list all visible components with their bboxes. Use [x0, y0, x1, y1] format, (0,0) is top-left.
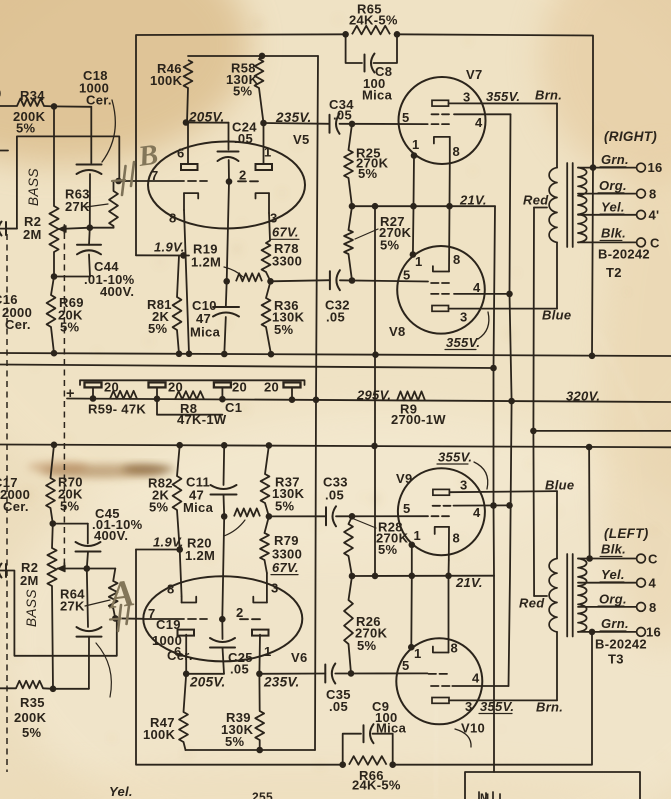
leader R20 — [224, 520, 245, 536]
node V7 pin1 — [411, 152, 418, 159]
wire R2a column top — [53, 106, 55, 206]
svg-text:3: 3 — [460, 310, 468, 325]
capacitor C17 edge — [0, 564, 2, 578]
wire V8 pin4 lead — [454, 293, 510, 295]
terminal T2 16 — [637, 163, 646, 172]
svg-text:4: 4 — [472, 671, 480, 686]
wire R39 bottom lead — [259, 740, 261, 750]
node V6 pin2 — [219, 616, 226, 623]
wire A to V6 — [115, 617, 143, 619]
node rail C / screen column — [508, 398, 515, 405]
leader R64 — [85, 600, 110, 606]
node 21V lower V10 col — [445, 573, 452, 580]
wire T3 black to rail D — [588, 447, 591, 559]
svg-text:2700-1W: 2700-1W — [391, 412, 446, 427]
svg-text:Cer.: Cer. — [86, 93, 112, 108]
wire V7 pin4 lead — [454, 113, 511, 115]
resistor R35 200K — [16, 681, 43, 689]
transformer T3 primary — [549, 559, 557, 632]
node rail A / R69 — [51, 350, 58, 357]
svg-text:24K-5%: 24K-5% — [349, 13, 398, 28]
svg-text:B-20242: B-20242 — [595, 637, 647, 652]
wire R78 top bend — [266, 241, 270, 244]
tube V8 grid pin5 dashes — [431, 282, 438, 284]
node B — [115, 178, 122, 185]
terminal T3 8 — [637, 603, 646, 612]
wire R58 top bend — [259, 56, 262, 59]
wire R64 bottom lead — [113, 608, 115, 618]
node wiper/C44 — [87, 224, 94, 231]
wire V9 pin1 lead — [411, 545, 413, 576]
svg-text:Blk.: Blk. — [601, 226, 626, 241]
svg-text:V5: V5 — [293, 132, 310, 147]
svg-text:67V.: 67V. — [272, 225, 299, 240]
node R65 right — [394, 31, 401, 38]
node rail D / R82 — [176, 442, 183, 449]
wire R25 bottom lead — [349, 178, 353, 206]
wire top box — [136, 34, 346, 255]
svg-text:(LEFT): (LEFT) — [604, 526, 649, 541]
wire R35 to node — [43, 687, 53, 690]
node C35/R26 — [348, 670, 355, 677]
svg-text:21V.: 21V. — [459, 193, 487, 208]
node R66 left — [339, 761, 346, 768]
wire R28 top lead — [349, 516, 353, 524]
svg-text:C1: C1 — [225, 400, 242, 415]
wire V10 plate lead — [449, 699, 557, 701]
leader V10 355V — [455, 729, 471, 747]
resistor R59 47K — [110, 391, 137, 399]
resistor R82 2K — [173, 476, 182, 510]
svg-text:8: 8 — [649, 187, 657, 202]
wire T3 tap 16 — [578, 631, 637, 633]
wire V8 plate lead — [449, 308, 558, 310]
tube V7 grid pin5 dashes — [432, 123, 439, 125]
svg-text:4: 4 — [649, 576, 657, 591]
svg-text:.05: .05 — [230, 662, 249, 677]
wire R35 row — [53, 688, 89, 690]
wire 235V to C34 — [264, 122, 330, 125]
node 21V V7 pin1 col — [410, 203, 417, 210]
resistor R66 24K-5% — [349, 756, 387, 765]
wire T2 tap C — [578, 241, 637, 243]
capacitor C10 47 Mica — [213, 306, 239, 308]
wire C25 bottom lead — [223, 648, 225, 674]
wire C10 top lead — [225, 281, 228, 307]
svg-text:Blue: Blue — [542, 308, 571, 323]
transformer T3 secondary — [578, 559, 587, 632]
resistor R63 27K — [109, 191, 118, 226]
node rail D / T3 black — [586, 444, 593, 451]
wire R2b column top — [51, 524, 54, 548]
svg-text:355V.: 355V. — [438, 450, 472, 465]
svg-text:320V.: 320V. — [566, 388, 600, 403]
svg-text:3: 3 — [465, 699, 473, 714]
node V8 pin1 — [410, 251, 417, 258]
svg-text:2: 2 — [239, 168, 247, 183]
tube V9 grid pin5 dashes — [432, 515, 439, 517]
svg-text:Grn.: Grn. — [601, 152, 629, 167]
resistor R28 270K — [344, 524, 353, 556]
node rail D / R37 — [266, 442, 273, 449]
svg-text:20: 20 — [168, 380, 183, 395]
tube V6 cathode pin3 — [253, 597, 267, 603]
svg-text:Mica: Mica — [362, 88, 393, 103]
tube V9 cathode pin8 — [435, 527, 449, 534]
node rail D / C11 — [221, 442, 228, 449]
potentiometer R2 lower 2M — [47, 548, 56, 586]
wire R69 top lead — [51, 277, 54, 296]
leader V9 355V — [474, 462, 488, 489]
wire V7 pin1 lead — [413, 156, 416, 207]
wire C35 to V10 — [335, 672, 427, 674]
wire B+ primaries column x=533 — [532, 208, 535, 597]
node B+ branch — [530, 428, 537, 435]
node 21V lower V9 col — [409, 573, 416, 580]
svg-text:5%: 5% — [380, 238, 400, 253]
svg-text:B-20242: B-20242 — [598, 247, 650, 262]
tube V8 envelope — [397, 246, 485, 334]
node V9 pin1 — [409, 542, 416, 549]
resistor R19 1.2M — [236, 273, 262, 281]
wire V10 pin1 lead — [410, 576, 413, 647]
svg-text:1: 1 — [264, 145, 272, 160]
wire C11 top lead — [223, 445, 226, 485]
dashed gang line left — [6, 234, 8, 772]
wire R82 top lead — [177, 445, 180, 476]
capacitor C1 section c 20uF — [214, 382, 231, 387]
wire R79 top lead — [265, 516, 269, 533]
wire C19 bottom lead — [88, 637, 90, 689]
tube V10 screen pin4 dashes — [431, 685, 439, 687]
wire R26 bottom lead — [349, 644, 352, 673]
capacitor C8 100 Mica — [364, 55, 366, 72]
leader C18 — [102, 100, 115, 162]
node R39 bottom — [256, 747, 263, 754]
wire lower feedback loop — [0, 571, 117, 656]
svg-text:100K: 100K — [143, 727, 176, 742]
node rail A / R36 — [268, 351, 275, 358]
svg-text:16: 16 — [648, 160, 663, 175]
wire R47 top lead — [184, 674, 187, 712]
resistor R70 20K — [46, 478, 55, 508]
wire R37 top lead — [265, 445, 269, 474]
wire V5 pin6 lead — [187, 123, 189, 165]
tube V10 envelope — [396, 638, 482, 724]
wire rail D — [0, 445, 671, 448]
node C34/R25 — [349, 121, 356, 128]
svg-text:4: 4 — [473, 505, 481, 520]
node R20 left — [221, 513, 228, 520]
svg-text:V9: V9 — [396, 471, 413, 486]
svg-text:4': 4' — [649, 208, 660, 223]
wire C32 to V8 — [340, 280, 428, 281]
wire V6 pin6 lead — [185, 635, 187, 674]
svg-text:+: + — [66, 386, 75, 402]
tube V8 plate pin3 — [432, 306, 449, 312]
wire 205V lower — [186, 673, 224, 675]
wire supply column x=316 — [315, 56, 318, 750]
wire R70 top lead — [51, 445, 55, 478]
node 235V — [260, 120, 267, 127]
wire V5 pin7 grid — [119, 180, 185, 182]
resistor R8 47K-1W — [175, 391, 204, 399]
wire T3 tap C — [578, 558, 637, 560]
leader R28 — [354, 519, 376, 528]
svg-text:Cer.: Cer. — [3, 499, 29, 514]
svg-text:8: 8 — [169, 211, 177, 226]
wire C34 to V7 — [340, 123, 428, 125]
tube V10 plate pin3 — [432, 698, 449, 704]
node R65 left — [342, 31, 349, 38]
svg-text:5%: 5% — [358, 166, 378, 181]
resistor R47 100K — [179, 712, 188, 742]
node T3 black — [586, 555, 593, 562]
terminal T3 C — [637, 554, 646, 563]
node rail B end — [490, 365, 497, 372]
wire 1.9V lower — [136, 549, 180, 551]
wire V6 pin1 lead — [258, 635, 261, 674]
tube V7 plate pin3 — [432, 100, 449, 106]
svg-text:27K: 27K — [60, 599, 85, 614]
wire R66 to T3 — [393, 632, 592, 765]
wire V10 pin4 lead — [452, 685, 508, 687]
capacitor C11 47 Mica — [211, 494, 237, 496]
wire R79 bottom lead — [265, 560, 267, 573]
tube V7 cathode pin8 — [434, 137, 450, 144]
svg-text:Brn.: Brn. — [536, 700, 563, 715]
wire V5 pin3 lead — [269, 213, 270, 241]
wire screen column x=510 — [509, 114, 512, 686]
wire C1 bracket — [80, 380, 305, 385]
tube V6 plate pin6 — [178, 630, 195, 636]
wire R81 top lead — [177, 256, 179, 298]
svg-text:3300: 3300 — [272, 254, 302, 269]
tube V6 grid pin2 dashes — [240, 618, 248, 620]
tube V8 screen pin4 dashes — [431, 293, 438, 295]
terminal T3 4 — [637, 578, 646, 587]
svg-text:Yel.: Yel. — [601, 200, 625, 215]
wire T3 primary top lead — [556, 491, 558, 558]
node 205V — [183, 119, 190, 126]
node R20 right — [266, 513, 273, 520]
wire V9 pin4 lead — [454, 504, 510, 506]
resistor R81 2K — [173, 297, 182, 330]
svg-text:5%: 5% — [148, 321, 168, 336]
node T2 green — [590, 164, 597, 171]
leader R19 — [224, 267, 243, 277]
svg-text:(RIGHT): (RIGHT) — [604, 129, 657, 144]
svg-text:6: 6 — [174, 644, 182, 659]
svg-text:20: 20 — [104, 380, 119, 395]
wire R19 row to C32 — [271, 280, 330, 281]
capacitor C24 .05 — [218, 151, 239, 153]
pencil cap mark — [122, 166, 126, 195]
wire V9 cathode lead — [448, 560, 450, 576]
svg-text:100K: 100K — [150, 73, 183, 88]
wire T3 tap 4 — [578, 582, 637, 584]
svg-text:8: 8 — [649, 600, 657, 615]
capacitor C1 section b 20uF — [149, 382, 166, 387]
svg-text:1.2M: 1.2M — [191, 255, 221, 270]
svg-text:Yel.: Yel. — [601, 567, 625, 582]
wire C44 top lead — [88, 228, 91, 245]
svg-text:5%: 5% — [357, 638, 377, 653]
node rail C / C1a — [90, 395, 97, 402]
wire C33 to V9 — [336, 515, 428, 517]
tube V5 grid pin2 dashes — [238, 180, 246, 182]
wire T2 primary top lead — [556, 104, 558, 168]
wire 1.9V — [136, 254, 189, 256]
wire C18 top lead — [90, 107, 92, 163]
wire 235V lower to C35 — [259, 673, 325, 675]
node rail A / C10 — [221, 351, 228, 358]
wire bottom inner — [186, 749, 316, 751]
wire T2 primary bottom lead — [556, 242, 558, 308]
svg-text:200K: 200K — [14, 710, 47, 725]
node R34 — [51, 103, 58, 110]
svg-text:8: 8 — [453, 252, 461, 267]
svg-text:235V.: 235V. — [263, 675, 300, 690]
svg-text:Blk.: Blk. — [601, 542, 626, 557]
leader R63 — [86, 204, 108, 207]
wire C9 loop — [343, 734, 361, 765]
wire V6 pin8 lead — [180, 550, 182, 597]
svg-text:2: 2 — [236, 605, 244, 620]
wire V5 pin1 lead — [263, 123, 265, 164]
svg-text:1: 1 — [414, 646, 422, 661]
node rail A / R81 — [176, 351, 183, 358]
wire R2b column bottom — [52, 586, 53, 689]
wire R63 bottom lead — [113, 226, 115, 228]
wire C45 row — [53, 523, 88, 525]
svg-text:T2: T2 — [606, 265, 622, 280]
svg-text:R35: R35 — [20, 695, 45, 710]
node A — [112, 615, 119, 622]
svg-text:8: 8 — [167, 582, 175, 597]
resistor R58 130K — [255, 59, 264, 88]
wire 205V — [186, 122, 229, 124]
wire R39 top lead — [258, 674, 260, 711]
node 21V V7 cathode col — [446, 203, 453, 210]
tube V7 screen pin4 dashes — [432, 113, 439, 115]
node rail D / left column — [51, 442, 58, 449]
wire R69 bottom lead — [51, 327, 54, 353]
svg-text:3: 3 — [271, 581, 279, 596]
svg-text:R34: R34 — [20, 88, 45, 103]
svg-text:0: 0 — [0, 86, 2, 101]
svg-text:3: 3 — [463, 90, 471, 105]
node 205V lower — [183, 671, 190, 678]
wire R28 bottom lead — [349, 556, 353, 576]
node rail C / supply column — [313, 397, 320, 404]
wire T2 tap 4 — [578, 214, 637, 216]
tube V10 grid pin5 dashes — [429, 673, 437, 675]
wire T3 tap 8 — [578, 606, 637, 608]
tube V6 plate pin1 — [252, 630, 269, 636]
resistor R27 270K — [344, 230, 353, 254]
leader R27 — [355, 229, 378, 239]
svg-text:355V.: 355V. — [480, 699, 514, 714]
tube V9 plate pin3 — [433, 489, 450, 495]
wire rail B — [0, 365, 494, 369]
node rail C / C1d — [289, 396, 296, 403]
svg-text:1: 1 — [415, 254, 423, 269]
svg-text:Cer.: Cer. — [5, 317, 31, 332]
svg-text:205V.: 205V. — [189, 675, 226, 690]
wire 21V column x=494 — [494, 206, 496, 772]
wire T2 tap 16 — [578, 167, 637, 169]
wire C19 top lead — [87, 569, 88, 628]
capacitor C33 .05 — [325, 507, 327, 525]
svg-text:1: 1 — [264, 644, 272, 659]
svg-text:Brn.: Brn. — [535, 88, 562, 103]
svg-text:5%: 5% — [274, 322, 294, 337]
terminal T2 8 — [637, 189, 646, 198]
wire 21V row — [352, 205, 495, 207]
svg-text:5: 5 — [403, 501, 411, 516]
node V9 pin4 junction b — [506, 502, 513, 509]
svg-text:V8: V8 — [389, 324, 406, 339]
resistor R79 3300 — [260, 533, 269, 560]
svg-text:1: 1 — [414, 528, 422, 543]
node V8 pin4 junction — [506, 291, 513, 298]
tube V5 plate pin1 — [256, 164, 273, 170]
resistor R34 200K — [17, 99, 44, 107]
wire R34 to node — [44, 105, 54, 107]
svg-text:5%: 5% — [378, 542, 398, 557]
wire R70 bottom lead — [51, 508, 53, 524]
svg-text:5%: 5% — [225, 734, 245, 749]
resistor R20 1.2M — [234, 508, 260, 516]
transformer T2 core — [566, 163, 568, 247]
svg-text:Mica: Mica — [183, 500, 214, 515]
wire inner top — [188, 55, 318, 57]
node R70/C45 — [50, 520, 57, 527]
svg-text:5%: 5% — [16, 121, 36, 136]
svg-text:3: 3 — [270, 211, 278, 226]
node V5 pin2 — [226, 178, 233, 185]
tube V6 cathode pin8 — [181, 597, 183, 603]
svg-text:BASS: BASS — [24, 589, 39, 627]
node rail D / center column — [371, 443, 378, 450]
node C32/R27 — [349, 277, 356, 284]
svg-text:5%: 5% — [275, 499, 295, 514]
svg-text:5: 5 — [402, 110, 410, 125]
svg-text:355V.: 355V. — [446, 335, 480, 350]
svg-text:Org.: Org. — [599, 592, 627, 607]
node C33/R28 — [349, 513, 356, 520]
wire C25 top lead — [221, 619, 223, 639]
svg-text:Yel.: Yel. — [109, 784, 133, 799]
wire node to C18 — [54, 105, 91, 107]
wire R78 lead — [266, 272, 271, 281]
capacitor C25 .05 — [210, 647, 235, 649]
resistor R39 130K — [255, 711, 264, 740]
leader C19 — [96, 643, 111, 697]
svg-text:1.2M: 1.2M — [185, 548, 215, 563]
svg-text:Mica: Mica — [376, 721, 407, 736]
wire R2a column bottom — [53, 252, 55, 277]
wire R36 bottom lead — [266, 327, 271, 354]
wire wiper row upper — [59, 228, 90, 229]
wire T3 red tap — [534, 595, 547, 597]
svg-text:1.9V.: 1.9V. — [154, 240, 185, 255]
node V10 pin1 — [408, 644, 415, 651]
wire ground rail A — [0, 353, 671, 356]
wire top right — [397, 34, 593, 167]
svg-text:5%: 5% — [60, 499, 80, 514]
